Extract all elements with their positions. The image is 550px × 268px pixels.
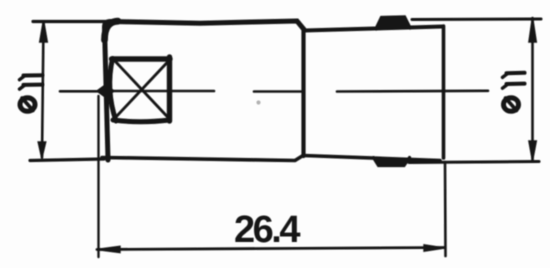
body right section top edge	[304, 27, 443, 31]
centerline through square	[112, 90, 214, 93]
width dim extension left	[97, 96, 99, 257]
right dim arrow down	[529, 141, 536, 161]
centerline dash 1	[60, 90, 104, 93]
width dimension line	[97, 248, 444, 250]
label phi-11 right (rotated, drawn)	[503, 73, 525, 111]
left dim arrow down	[38, 142, 45, 158]
body right section right edge	[442, 26, 446, 158]
centerline junction blob	[97, 85, 115, 98]
width dim arrow right	[424, 245, 445, 251]
crosshatch square top edge	[112, 56, 171, 61]
body left section outline	[105, 21, 305, 160]
crosshatch diagonal 2	[114, 60, 170, 119]
crosshatch square bottom edge	[113, 120, 170, 122]
right dim extension bottom	[409, 162, 539, 163]
left dim arrow up	[40, 21, 47, 43]
top bayonet lug	[376, 17, 410, 29]
left dim extension top	[33, 20, 109, 23]
body left section bottom edge	[102, 156, 303, 161]
bottom bayonet lug	[374, 158, 410, 166]
left dim extension bottom	[30, 159, 104, 161]
svg-text:26.4: 26.4	[234, 209, 300, 251]
right dim extension top	[412, 18, 541, 22]
width dim arrow left	[97, 246, 121, 252]
width dim extension right	[444, 162, 447, 256]
right dim arrow up	[529, 18, 536, 43]
body right section bottom edge	[304, 156, 441, 161]
heavy scanned top-left corner	[105, 21, 119, 40]
right dimension line	[531, 18, 534, 160]
centerline dash 4	[337, 90, 488, 93]
boundary line between sections	[301, 29, 305, 156]
faint scan speckle	[256, 100, 260, 104]
label phi-11 left (rotated, drawn)	[20, 75, 43, 111]
left dimension line	[42, 22, 44, 158]
crosshatch square left edge (wobbly)	[110, 59, 116, 122]
centerline dash 3	[254, 90, 301, 93]
crosshatch diagonal 1	[114, 60, 170, 119]
crosshatch square right edge	[167, 57, 172, 121]
